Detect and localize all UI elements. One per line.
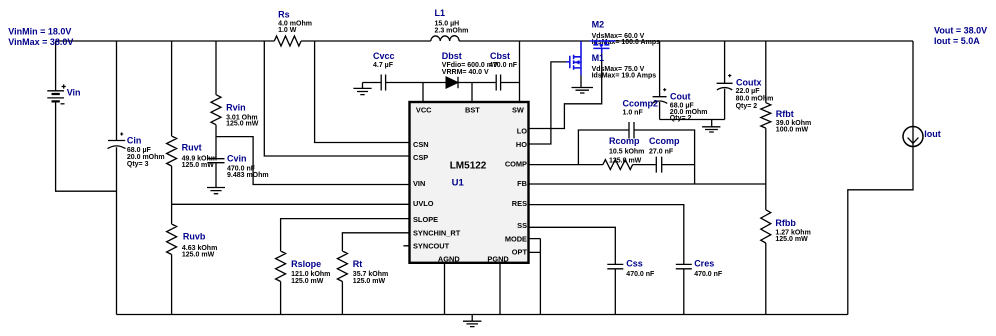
svg-text:BST: BST <box>465 106 480 115</box>
svg-text:125.0 mW: 125.0 mW <box>182 162 215 169</box>
svg-text:CSN: CSN <box>413 140 429 149</box>
svg-text:Qty= 3: Qty= 3 <box>127 161 149 168</box>
svg-text:PGND: PGND <box>487 255 509 264</box>
svg-text:125.0 mW: 125.0 mW <box>775 236 808 243</box>
svg-text:Rfbt: Rfbt <box>776 109 794 119</box>
svg-text:IdsMax= 19.0 Amps: IdsMax= 19.0 Amps <box>592 73 657 80</box>
svg-text:2.3 mOhm: 2.3 mOhm <box>435 27 469 34</box>
svg-text:SYNCOUT: SYNCOUT <box>413 242 450 251</box>
svg-text:M2: M2 <box>592 20 605 30</box>
svg-text:Rcomp: Rcomp <box>609 136 640 146</box>
svg-text:CSP: CSP <box>413 153 428 162</box>
svg-text:LO: LO <box>517 127 528 136</box>
svg-text:1.0 W: 1.0 W <box>278 27 297 34</box>
svg-text:4.7 µF: 4.7 µF <box>373 62 394 69</box>
svg-text:VinMin = 18.0V: VinMin = 18.0V <box>8 26 71 36</box>
svg-text:Coutx: Coutx <box>736 78 762 88</box>
svg-text:HO: HO <box>516 140 527 149</box>
svg-text:Rfbb: Rfbb <box>775 218 796 228</box>
svg-text:OPT: OPT <box>512 248 528 257</box>
svg-text:U1: U1 <box>452 177 465 188</box>
svg-text:10.5 kOhm: 10.5 kOhm <box>609 148 644 155</box>
svg-text:100.0 mW: 100.0 mW <box>776 126 809 133</box>
svg-text:Vin: Vin <box>67 87 81 97</box>
svg-text:Cout: Cout <box>670 91 691 101</box>
svg-text:Dbst: Dbst <box>442 51 462 61</box>
svg-text:COMP: COMP <box>505 160 527 169</box>
svg-text:Qty= 2: Qty= 2 <box>670 115 692 122</box>
svg-text:VIN: VIN <box>413 179 425 188</box>
svg-text:Cres: Cres <box>694 259 714 269</box>
svg-text:22.0 µF: 22.0 µF <box>736 88 761 95</box>
svg-text:125.0 mW: 125.0 mW <box>353 278 386 285</box>
svg-text:SLOPE: SLOPE <box>413 215 438 224</box>
svg-text:M1: M1 <box>592 53 605 63</box>
svg-text:125.0 mW: 125.0 mW <box>291 278 324 285</box>
svg-text:Ccomp2: Ccomp2 <box>623 99 659 109</box>
svg-text:Iout = 5.0A: Iout = 5.0A <box>934 36 980 46</box>
svg-text:Css: Css <box>626 259 643 269</box>
svg-text:Vout = 38.0V: Vout = 38.0V <box>934 25 987 35</box>
svg-text:VinMax = 38.0V: VinMax = 38.0V <box>8 37 73 47</box>
svg-text:Rvin: Rvin <box>226 103 246 113</box>
svg-text:9.483 mOhm: 9.483 mOhm <box>227 172 269 179</box>
svg-text:RES: RES <box>512 199 527 208</box>
svg-text:VCC: VCC <box>416 106 432 115</box>
svg-text:Ruvb: Ruvb <box>183 232 206 242</box>
svg-text:VRRM= 40.0 V: VRRM= 40.0 V <box>442 69 489 76</box>
svg-text:Ruvt: Ruvt <box>182 142 202 152</box>
svg-text:Cvin: Cvin <box>227 154 247 164</box>
svg-text:Cin: Cin <box>127 136 141 146</box>
svg-text:470.0 nF: 470.0 nF <box>626 271 655 278</box>
svg-text:470.0 nF: 470.0 nF <box>489 62 518 69</box>
svg-text:27.0 nF: 27.0 nF <box>649 148 674 155</box>
svg-text:FB: FB <box>517 179 527 188</box>
svg-text:Cvcc: Cvcc <box>373 51 395 61</box>
svg-text:SS: SS <box>517 221 527 230</box>
svg-text:UVLO: UVLO <box>413 199 434 208</box>
svg-text:125.0 mW: 125.0 mW <box>226 121 259 128</box>
svg-text:125.0 mW: 125.0 mW <box>182 252 215 259</box>
svg-text:80.0 mOhm: 80.0 mOhm <box>736 96 774 103</box>
svg-text:Ccomp: Ccomp <box>649 136 680 146</box>
svg-text:Rt: Rt <box>353 259 363 269</box>
svg-text:Qty= 2: Qty= 2 <box>736 103 758 110</box>
svg-text:Rslope: Rslope <box>291 259 321 269</box>
svg-text:Cbst: Cbst <box>490 51 510 61</box>
svg-text:AGND: AGND <box>438 255 460 264</box>
svg-text:MODE: MODE <box>505 235 527 244</box>
svg-text:470.0 nF: 470.0 nF <box>694 271 723 278</box>
svg-text:125.0 mW: 125.0 mW <box>609 157 642 164</box>
svg-text:SW: SW <box>512 106 524 115</box>
svg-text:LM5122: LM5122 <box>450 160 487 171</box>
svg-text:L1: L1 <box>435 8 446 18</box>
svg-text:Rs: Rs <box>278 10 290 20</box>
svg-text:SYNCHIN_RT: SYNCHIN_RT <box>413 229 461 238</box>
svg-text:1.0 nF: 1.0 nF <box>623 109 644 116</box>
svg-text:Iout: Iout <box>924 129 941 139</box>
